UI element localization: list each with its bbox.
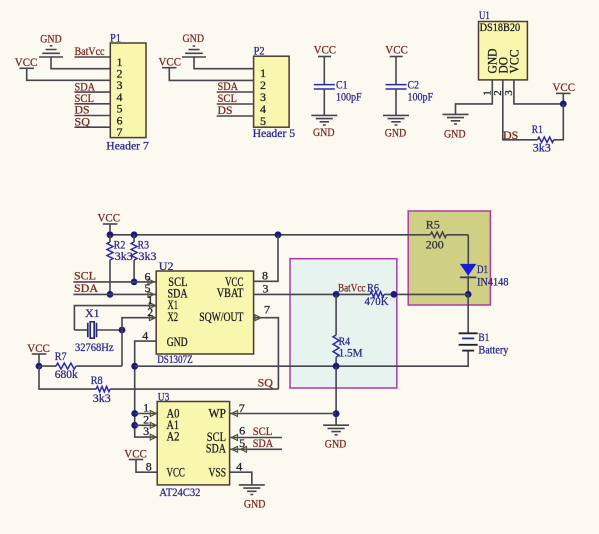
svg-text:3: 3 bbox=[263, 282, 269, 296]
U1 pin name VCC (rotated) bbox=[508, 50, 522, 74]
svg-text:2: 2 bbox=[147, 305, 153, 319]
net label SDA (U3) bbox=[253, 436, 274, 450]
resistor R7 bbox=[56, 363, 76, 369]
wire C2 to GND bbox=[395, 89, 397, 115]
U1 name DS18B20 bbox=[480, 22, 521, 34]
pin6 arrows bbox=[148, 279, 163, 285]
VCC label P2 bbox=[159, 55, 182, 69]
svg-text:AT24C32: AT24C32 bbox=[159, 485, 200, 499]
svg-text:X2: X2 bbox=[168, 310, 179, 324]
wire U3 VSS pin4 to GND bbox=[230, 472, 252, 485]
U3 pin name SDA bbox=[206, 441, 226, 455]
svg-text:X1: X1 bbox=[85, 306, 100, 320]
wire VCC to P2 pin2 bbox=[169, 68, 253, 81]
wire A1 bbox=[135, 424, 157, 426]
IC U1 DS18B20 body bbox=[479, 22, 528, 80]
R7 designator bbox=[55, 349, 67, 363]
svg-text:1.5M: 1.5M bbox=[339, 345, 363, 359]
svg-text:SDA: SDA bbox=[253, 436, 274, 450]
R4 designator bbox=[339, 334, 351, 348]
wire bottom rail bbox=[135, 351, 468, 366]
VCC label U3 bbox=[124, 446, 147, 460]
highlight box cyan bbox=[290, 259, 397, 388]
pin A1 arrow bbox=[150, 422, 156, 428]
P2 value Header 5 bbox=[253, 126, 296, 140]
svg-text:DS18B20: DS18B20 bbox=[480, 22, 521, 34]
wire C1 to GND bbox=[323, 89, 325, 115]
svg-text:GND: GND bbox=[167, 335, 188, 349]
U2 pin name SCL bbox=[168, 275, 187, 289]
resistor R4 bbox=[333, 335, 339, 357]
junction A1 bbox=[131, 422, 138, 429]
svg-text:A2: A2 bbox=[167, 430, 180, 444]
U2 pin name GND bbox=[167, 335, 188, 349]
junction rail at VCC stem bbox=[107, 231, 114, 238]
R4 value 1.5M bbox=[339, 345, 363, 359]
wire X1 pin to U2 bbox=[74, 306, 156, 330]
wire junction down to R1 bbox=[554, 104, 564, 140]
U2 pin number 7 bbox=[264, 302, 270, 316]
U2 pin name SQW/OUT bbox=[199, 310, 244, 324]
R5 designator bbox=[426, 218, 440, 232]
svg-text:P1: P1 bbox=[110, 31, 121, 45]
power VCC symbol C1 bbox=[318, 56, 331, 58]
VCC label C2 bbox=[385, 43, 408, 57]
crystal X1 left lead bbox=[74, 329, 87, 331]
wire R8 to SQ vertical bbox=[110, 388, 278, 390]
connector P2 body bbox=[254, 56, 290, 127]
U3 pin number 8 bbox=[146, 459, 152, 473]
resistor R6 bbox=[370, 292, 384, 297]
ground symbol (inverted) above P1 bbox=[39, 46, 63, 57]
U2 pin number 2 bbox=[147, 305, 153, 319]
svg-text:VCC: VCC bbox=[314, 43, 337, 57]
VCC label R7 bbox=[27, 341, 50, 355]
U2 value DS1307Z bbox=[157, 352, 193, 366]
ground symbol C1 bbox=[311, 115, 337, 125]
junction VCC-R7 bbox=[36, 363, 43, 370]
svg-text:7: 7 bbox=[264, 302, 270, 316]
wire U2 pin3 VBAT to BatVcc line bbox=[254, 293, 337, 295]
U3 pin number 5 bbox=[239, 436, 245, 450]
svg-text:SDA: SDA bbox=[74, 281, 98, 295]
wire U1 pin2 (DS) down bbox=[503, 80, 538, 140]
wire WP junction down to GND bbox=[335, 366, 337, 425]
R2 value 3k3 bbox=[115, 249, 133, 263]
wire VCC rail to R5 bbox=[110, 234, 468, 236]
svg-text:5: 5 bbox=[260, 114, 266, 128]
svg-text:DS: DS bbox=[503, 128, 518, 142]
wire R5 to D1 bbox=[467, 235, 469, 264]
capacitor C2 bbox=[386, 85, 407, 89]
wire WP pin7 bbox=[230, 413, 337, 415]
svg-text:VCC: VCC bbox=[167, 466, 185, 480]
wire VCC bar to junction bbox=[562, 93, 564, 104]
U2 pin number 4 bbox=[142, 328, 148, 342]
net label SDA (P1) bbox=[75, 79, 96, 93]
net label SQ (P1) bbox=[75, 114, 91, 128]
svg-text:100pF: 100pF bbox=[336, 90, 362, 104]
junction R6 right bbox=[391, 291, 398, 298]
U2 pin number 1 bbox=[147, 293, 153, 307]
R1 value 3k3 bbox=[533, 141, 551, 155]
U2 designator bbox=[159, 259, 174, 273]
wire VCC to C1 bbox=[323, 57, 325, 85]
IC U2 DS1307Z body bbox=[156, 271, 253, 354]
pin A0 arrow bbox=[150, 411, 156, 417]
svg-text:8: 8 bbox=[146, 459, 152, 473]
wire R7 right to crystal vertical bbox=[76, 365, 122, 367]
battery B1 bbox=[459, 294, 478, 350]
pin SDA arrow bbox=[232, 446, 247, 452]
ground symbol U3 bbox=[239, 485, 265, 495]
resistor R2 bbox=[107, 235, 113, 295]
svg-text:GND: GND bbox=[444, 127, 466, 141]
wire GND to P1 pin2 bbox=[51, 57, 110, 69]
net label SCL (P1) bbox=[75, 91, 95, 105]
svg-text:Battery: Battery bbox=[478, 343, 508, 357]
net label SCL (U2) bbox=[74, 269, 96, 283]
wire VCC to C2 bbox=[395, 57, 397, 85]
C2 value 100pF bbox=[408, 90, 434, 104]
wire crystal junction down to R7 bbox=[121, 330, 123, 366]
svg-text:8: 8 bbox=[262, 268, 268, 282]
P1 designator bbox=[110, 31, 121, 45]
svg-text:VCC: VCC bbox=[159, 55, 182, 69]
U1 pin name DO (rotated) bbox=[497, 57, 511, 74]
svg-text:Header 5: Header 5 bbox=[253, 126, 296, 140]
VCC label P1 bbox=[15, 55, 38, 69]
svg-text:VSS: VSS bbox=[209, 466, 227, 480]
U3 pin number 2 bbox=[143, 412, 149, 426]
net label SCL (P2) bbox=[218, 91, 238, 105]
capacitor C1 bbox=[314, 85, 335, 89]
net label SQ bbox=[258, 376, 274, 390]
junction R3 on SCL bbox=[131, 279, 138, 286]
R2 designator bbox=[114, 237, 126, 251]
wire R4 to bottom rail bbox=[335, 357, 337, 366]
wire SQ to P1 pin7 bbox=[75, 126, 111, 128]
B1 designator bbox=[478, 330, 489, 344]
junction R2 on SDA bbox=[107, 291, 114, 298]
power VCC symbol C2 bbox=[390, 56, 403, 58]
svg-text:IN4148: IN4148 bbox=[477, 274, 509, 288]
junction rail at R3 bbox=[131, 231, 138, 238]
wire SDA to U2 pin5 bbox=[73, 293, 156, 295]
U1 pin name GND (rotated) bbox=[486, 49, 500, 74]
C1 value 100pF bbox=[336, 90, 362, 104]
wire U1 pin3 to VCC junction bbox=[514, 80, 563, 104]
power VCC symbol (rail) bbox=[103, 223, 118, 225]
U1 pin number 2 (rotated) bbox=[492, 90, 504, 96]
C1 designator bbox=[336, 78, 348, 92]
U3 pin name A0 bbox=[167, 407, 180, 421]
VCC label U1 bbox=[553, 80, 576, 94]
P2 designator bbox=[254, 44, 265, 58]
resistor R1 bbox=[538, 137, 554, 142]
R8 value 3k3 bbox=[93, 391, 111, 405]
svg-text:VCC: VCC bbox=[508, 50, 522, 74]
GND label C2 bbox=[385, 125, 407, 139]
wire DS to P1 pin6 bbox=[75, 115, 111, 117]
wire BatVcc down to R4 bbox=[335, 294, 337, 335]
C2 designator bbox=[408, 78, 420, 92]
U3 pin name WP bbox=[209, 407, 227, 421]
svg-text:7: 7 bbox=[117, 125, 123, 139]
svg-text:R7: R7 bbox=[55, 349, 67, 363]
svg-text:GND: GND bbox=[325, 436, 347, 450]
net label SDA (P2) bbox=[218, 79, 239, 93]
U2 pin number 8 bbox=[262, 268, 268, 282]
resistor R3 bbox=[131, 235, 137, 282]
U1 pin number 1 (rotated) bbox=[482, 90, 494, 96]
svg-text:GND: GND bbox=[183, 31, 205, 45]
wire SCL to P1 pin5 bbox=[75, 103, 111, 105]
power VCC symbol U1 bbox=[556, 92, 571, 94]
U3 pin number 1 bbox=[143, 401, 149, 415]
wire U3 SDA pin5 bbox=[230, 448, 282, 450]
wire U2 pin7 SQW to SQ line bbox=[254, 318, 279, 389]
U3 pin number 7 bbox=[239, 401, 245, 415]
VCC label rail bbox=[98, 211, 121, 225]
svg-text:DS1307Z: DS1307Z bbox=[157, 352, 193, 366]
pin2 arrow X2 bbox=[150, 315, 156, 321]
svg-text:VCC: VCC bbox=[385, 43, 408, 57]
junction rail at pin8 branch bbox=[275, 231, 282, 238]
svg-text:GND: GND bbox=[313, 125, 335, 139]
ground symbol (inverted) above P2 bbox=[182, 46, 206, 57]
svg-text:4: 4 bbox=[236, 459, 242, 473]
net label BatVcc bbox=[338, 281, 366, 295]
pin WP arrow bbox=[232, 411, 238, 417]
ground symbol U1 bbox=[443, 114, 469, 124]
U3 pin number 4 bbox=[236, 459, 242, 473]
junction R4 bottom bbox=[333, 363, 340, 370]
R3 value 3k3 bbox=[139, 249, 157, 263]
junction D1 on BatVcc line bbox=[465, 291, 472, 298]
U3 pin name A2 bbox=[167, 430, 180, 444]
svg-text:GND: GND bbox=[385, 125, 407, 139]
ground symbol C2 bbox=[383, 115, 409, 125]
wire U2 pin8 to rail bbox=[254, 235, 278, 281]
svg-text:VCC: VCC bbox=[27, 341, 50, 355]
wire SDA to P1 pin4 bbox=[75, 91, 111, 93]
highlight box olive bbox=[408, 211, 490, 305]
svg-text:4: 4 bbox=[142, 328, 148, 342]
U2 pin number 5 bbox=[145, 281, 151, 295]
U2 pin number 6 bbox=[145, 269, 151, 283]
svg-text:U1: U1 bbox=[479, 8, 490, 22]
pin1 arrow X1 bbox=[150, 303, 156, 309]
power VCC symbol U3 bbox=[129, 459, 144, 461]
svg-text:3: 3 bbox=[143, 424, 149, 438]
ground symbol (WP) bbox=[323, 425, 349, 435]
GND label U1 bbox=[444, 127, 466, 141]
svg-text:BatVcc: BatVcc bbox=[338, 281, 366, 295]
svg-text:3k3: 3k3 bbox=[533, 141, 551, 155]
svg-text:P2: P2 bbox=[254, 44, 265, 58]
wire VCC stem to rail bbox=[109, 224, 111, 235]
diode D1 bbox=[460, 264, 477, 295]
junction U1 VCC bbox=[560, 101, 567, 108]
junction crystal right bbox=[119, 327, 126, 334]
wire VCC down to R8 bbox=[39, 366, 96, 389]
power VCC symbol P2 bbox=[162, 67, 177, 69]
U3 pin name VCC bbox=[167, 466, 185, 480]
svg-text:VCC: VCC bbox=[15, 55, 38, 69]
svg-text:SQW/OUT: SQW/OUT bbox=[199, 310, 244, 324]
svg-text:SQ: SQ bbox=[258, 376, 274, 390]
resistor R8 bbox=[96, 386, 110, 391]
wire A0 bbox=[135, 413, 157, 415]
svg-text:Header 7: Header 7 bbox=[106, 139, 149, 153]
wire X2 to U2 bbox=[122, 318, 156, 330]
junction BatVcc left bbox=[333, 291, 340, 298]
VCC label C1 bbox=[314, 43, 337, 57]
U2 pin name VCC bbox=[225, 275, 243, 289]
R7 value 680k bbox=[55, 367, 78, 381]
U3 pin name A1 bbox=[167, 418, 180, 432]
svg-text:GND: GND bbox=[40, 32, 62, 46]
svg-text:VBAT: VBAT bbox=[217, 286, 244, 300]
svg-text:200: 200 bbox=[426, 238, 444, 252]
pin5 arrows bbox=[148, 292, 163, 298]
U3 value AT24C32 bbox=[159, 485, 200, 499]
D1 designator bbox=[477, 262, 488, 276]
crystal X1 right lead bbox=[97, 329, 123, 331]
svg-text:WP: WP bbox=[209, 407, 227, 421]
wire BatVcc line R6 segments bbox=[336, 293, 468, 295]
U3 pin number 3 bbox=[143, 424, 149, 438]
svg-text:SQ: SQ bbox=[75, 114, 91, 128]
GND label U3 bbox=[244, 496, 266, 510]
X1 designator bbox=[85, 306, 100, 320]
svg-text:R5: R5 bbox=[426, 218, 440, 232]
junction pin4 vertical on bottom rail bbox=[131, 363, 138, 370]
svg-text:U2: U2 bbox=[159, 259, 174, 273]
U2 pin number 3 bbox=[263, 282, 269, 296]
wire GND to P2 pin1 bbox=[194, 57, 254, 69]
U2 pin name VBAT bbox=[217, 286, 244, 300]
U3 pin number 6 bbox=[239, 424, 245, 438]
X1 value 32768Hz bbox=[75, 340, 114, 354]
power VCC symbol P1 bbox=[20, 67, 35, 69]
net label DS (P2) bbox=[218, 103, 233, 117]
wire SDA to P2 pin3 bbox=[217, 91, 254, 93]
wire VCC stem to R7 junction bbox=[38, 354, 40, 366]
power VCC symbol (R7) bbox=[32, 353, 47, 355]
U3 pin name SCL bbox=[207, 430, 226, 444]
svg-text:DS: DS bbox=[218, 103, 233, 117]
U3 designator bbox=[158, 389, 170, 403]
U1 pin number 3 (rotated) bbox=[503, 90, 515, 96]
wire VCC to P1 pin3 bbox=[27, 68, 111, 80]
R8 designator bbox=[91, 373, 103, 387]
resistor R5 bbox=[430, 232, 446, 237]
D1 value IN4148 bbox=[477, 274, 509, 288]
R1 designator bbox=[532, 122, 543, 136]
crystal X1 bbox=[88, 322, 97, 338]
wire U1 pin1 to GND bbox=[456, 80, 493, 115]
P2 pin numbers 1-5 bbox=[260, 66, 266, 128]
GND label P2 bbox=[183, 31, 205, 45]
svg-text:SDA: SDA bbox=[206, 441, 226, 455]
svg-text:680k: 680k bbox=[55, 367, 78, 381]
svg-text:VCC: VCC bbox=[124, 446, 147, 460]
net label SCL (U3) bbox=[253, 424, 273, 438]
svg-text:3k3: 3k3 bbox=[93, 391, 111, 405]
U3 pin name VSS bbox=[209, 466, 227, 480]
svg-text:U3: U3 bbox=[158, 389, 170, 403]
GND label C1 bbox=[313, 125, 335, 139]
svg-text:GND: GND bbox=[244, 496, 266, 510]
svg-text:470K: 470K bbox=[365, 294, 389, 308]
P1 pin numbers 1-7 bbox=[117, 55, 123, 139]
svg-text:BatVcc: BatVcc bbox=[75, 44, 105, 58]
wire SCL to P2 pin4 bbox=[217, 103, 254, 105]
B1 value Battery bbox=[478, 343, 508, 357]
R5 value 200 bbox=[426, 238, 444, 252]
wire R7 left bbox=[39, 365, 56, 367]
junction WP bbox=[333, 410, 340, 417]
svg-text:R1: R1 bbox=[532, 122, 543, 136]
junction A0 bbox=[131, 410, 138, 417]
P1 value Header 7 bbox=[106, 139, 149, 153]
net label SDA (U2) bbox=[74, 281, 98, 295]
U1 designator bbox=[479, 8, 490, 22]
pin SCL arrow bbox=[232, 435, 238, 441]
wire DS to P2 pin5 bbox=[217, 115, 254, 117]
R6 value 470K bbox=[365, 294, 389, 308]
pin7 output arrow bbox=[255, 315, 261, 321]
net label DS (U1) bbox=[503, 128, 518, 142]
R3 designator bbox=[138, 237, 150, 251]
net label BatVcc bbox=[75, 44, 105, 58]
U2 pin name SDA bbox=[168, 287, 188, 301]
wire BatVcc to P1 pin1 bbox=[75, 56, 111, 58]
svg-text:32768Hz: 32768Hz bbox=[75, 340, 114, 354]
net label DS (P1) bbox=[75, 103, 90, 117]
IC U3 AT24C32 body bbox=[157, 402, 229, 485]
svg-text:VCC: VCC bbox=[553, 80, 576, 94]
pin A2 arrow bbox=[150, 434, 156, 440]
U2 pin name X2 bbox=[168, 310, 179, 324]
svg-text:100pF: 100pF bbox=[408, 90, 434, 104]
R6 designator bbox=[367, 280, 379, 294]
wire U2 pin4 GND down bbox=[135, 341, 157, 437]
GND label P1 bbox=[40, 32, 62, 46]
svg-text:R8: R8 bbox=[91, 373, 103, 387]
svg-text:3k3: 3k3 bbox=[115, 249, 133, 263]
GND label WP bbox=[325, 436, 347, 450]
svg-text:3k3: 3k3 bbox=[139, 249, 157, 263]
svg-text:VCC: VCC bbox=[98, 211, 121, 225]
connector P1 body bbox=[110, 43, 146, 138]
svg-text:R6: R6 bbox=[367, 280, 379, 294]
U2 pin name X1 bbox=[168, 298, 179, 312]
wire U3 SCL pin6 bbox=[230, 437, 282, 439]
wire SCL to U2 pin6 bbox=[73, 281, 156, 283]
wire VCC to U3 pin8 bbox=[136, 460, 157, 473]
